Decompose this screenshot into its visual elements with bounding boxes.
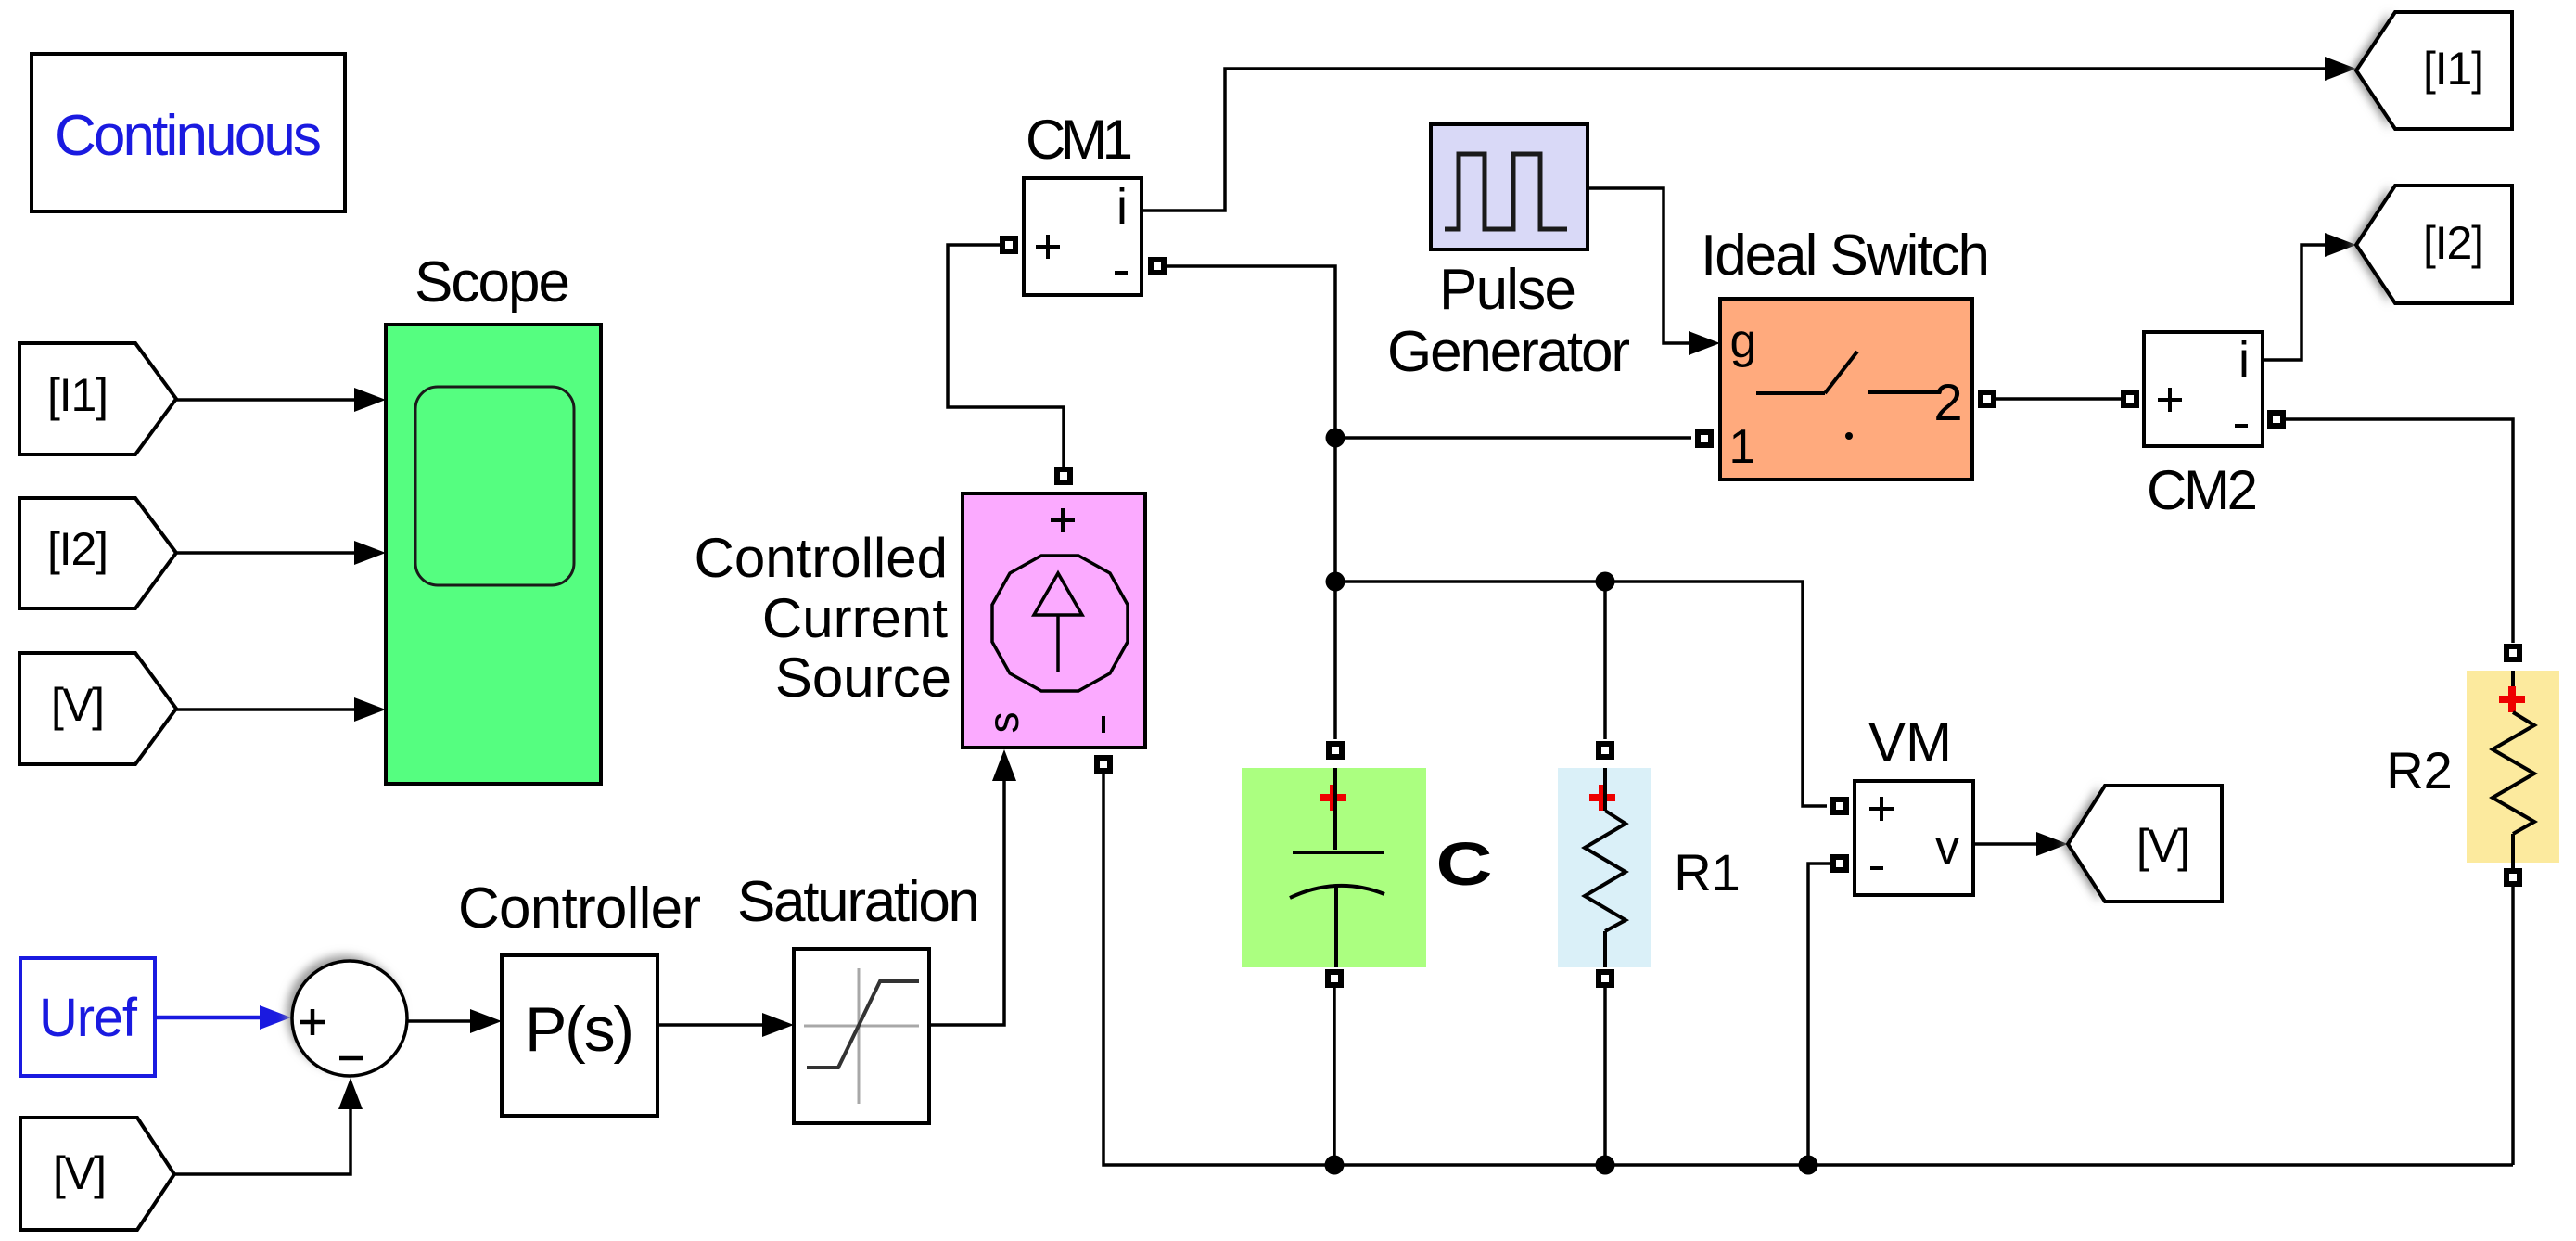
resistor R2 block xyxy=(2467,671,2559,869)
wire [V] feedback to sum - input xyxy=(174,1109,351,1174)
svg-text:1: 1 xyxy=(1729,420,1756,474)
arrowhead into goto [I2] xyxy=(2325,233,2356,257)
Saturation block xyxy=(794,949,929,1123)
port switch 1 xyxy=(1698,432,1711,445)
svg-text:[V]: [V] xyxy=(2136,820,2190,872)
port C top xyxy=(1329,744,1342,757)
port CM1 - xyxy=(1151,260,1164,273)
arrowhead into Controller xyxy=(470,1009,502,1033)
arrowhead into Scope input 2 xyxy=(354,541,386,565)
svg-text:Saturation: Saturation xyxy=(737,870,980,934)
svg-text:P(s): P(s) xyxy=(525,994,634,1065)
svg-text:[I2]: [I2] xyxy=(2423,217,2484,269)
wire Saturation to Controlled Current Source s-input xyxy=(929,781,1004,1025)
junction node at (1440,627) xyxy=(1326,572,1345,592)
wire Controller to Saturation xyxy=(657,1023,777,1027)
svg-text:g: g xyxy=(1730,314,1757,368)
svg-text:Ideal Switch: Ideal Switch xyxy=(1701,224,1990,288)
from tag [I1] xyxy=(19,343,176,454)
wire switch 2 to CM2 + xyxy=(1994,397,2125,401)
wire [I2] to Scope xyxy=(176,551,369,555)
svg-text:[I1]: [I1] xyxy=(47,369,108,421)
svg-text:2: 2 xyxy=(1933,373,1962,431)
svg-text:VM: VM xyxy=(1868,711,1952,774)
svg-text:Scope: Scope xyxy=(414,250,570,314)
svg-text:Pulse: Pulse xyxy=(1439,258,1576,322)
capacitor C block xyxy=(1242,768,1426,967)
port VM - xyxy=(1833,857,1846,870)
goto tag [I1] shadow xyxy=(2351,12,2390,129)
arrowhead into Scope input 3 xyxy=(354,697,386,722)
voltage measurement VM xyxy=(1855,781,1973,895)
svg-text:[I2]: [I2] xyxy=(47,523,108,575)
port switch 2 xyxy=(1981,392,1994,405)
goto tag [I2] xyxy=(2356,186,2512,303)
resistor R1 block xyxy=(1558,768,1651,967)
label Pulse Generator xyxy=(1387,258,1630,384)
Uref constant block xyxy=(20,958,155,1076)
svg-text:[I1]: [I1] xyxy=(2423,43,2484,95)
port R1 top xyxy=(1599,744,1612,757)
wire CM1 + to CCS + terminal xyxy=(948,245,1064,468)
goto tag [V] shadow xyxy=(2062,786,2099,902)
Controller block P(s) xyxy=(502,955,657,1116)
wire CM1 i output to tag [I1] xyxy=(1141,69,2339,211)
svg-text:CM2: CM2 xyxy=(2147,459,2258,521)
wire VM v to goto [V] xyxy=(1973,842,2051,846)
scope block xyxy=(386,325,601,784)
wire CCS - to ground bus xyxy=(1103,771,2513,1165)
svg-text:[V]: [V] xyxy=(51,679,105,731)
port CCS - (bottom right) xyxy=(1097,758,1110,771)
svg-text:Current: Current xyxy=(762,587,948,649)
current measurement CM1 xyxy=(1024,178,1141,295)
arrowhead into sum + input (blue) xyxy=(260,1005,291,1030)
port CCS + (top) xyxy=(1057,469,1070,482)
port R1 bottom xyxy=(1599,972,1612,985)
controlled current source block U1 xyxy=(963,493,1145,748)
goto tag [V] xyxy=(2068,786,2222,902)
arrowhead into g input xyxy=(1689,331,1720,355)
junction node at (1440,472) xyxy=(1326,429,1345,448)
svg-text:Controlled: Controlled xyxy=(695,527,949,589)
svg-text:i: i xyxy=(2238,332,2250,388)
svg-text:s: s xyxy=(979,712,1027,734)
svg-text:R2: R2 xyxy=(2386,741,2453,800)
from tag [V] (scope input) xyxy=(19,653,176,764)
wire sum to Controller xyxy=(407,1019,485,1023)
junction node at (1731,1256) xyxy=(1596,1156,1615,1175)
sum junction shadow xyxy=(287,955,402,1070)
wire R1 bottom to ground bus xyxy=(1603,985,1607,1165)
sum junction circle xyxy=(292,961,407,1076)
arrowhead into Scope input 1 xyxy=(354,388,386,412)
pulse generator block xyxy=(1431,124,1588,249)
wire R2 bottom to ground bus xyxy=(2511,884,2515,1165)
goto tag [I2] shadow xyxy=(2351,186,2390,303)
junction node at (1950,1256) xyxy=(1799,1156,1818,1175)
port R2 bottom xyxy=(2506,871,2519,884)
svg-text:Controller: Controller xyxy=(458,876,701,940)
junction node at (1439,1256) xyxy=(1325,1156,1345,1175)
wire Uref to sum (blue) xyxy=(155,1016,261,1020)
wire CM2 i to goto [I2] xyxy=(2263,245,2339,360)
port CM2 + xyxy=(2123,392,2136,405)
labels Controlled Current Source xyxy=(695,527,952,709)
svg-text:Uref: Uref xyxy=(39,988,138,1048)
svg-text:C: C xyxy=(1435,830,1492,899)
arrowhead into goto [V] xyxy=(2036,832,2068,856)
svg-text:CM1: CM1 xyxy=(1026,109,1133,171)
svg-text:i: i xyxy=(1116,179,1128,235)
svg-text:Source: Source xyxy=(775,646,951,709)
wire C bottom to ground bus xyxy=(1333,985,1336,1165)
junction node at (1731,627) xyxy=(1596,572,1615,592)
port VM + xyxy=(1833,800,1846,812)
arrowhead into goto [I1] xyxy=(2325,57,2356,81)
port R2 top xyxy=(2506,646,2519,659)
wire [I1] to Scope xyxy=(176,398,369,402)
goto tag [I1] xyxy=(2356,12,2512,129)
wire CM2 - to R2 top xyxy=(2283,419,2513,643)
from tag [I2] xyxy=(19,498,176,608)
arrowhead into Saturation xyxy=(762,1013,794,1037)
from tag [V] (feedback) xyxy=(20,1118,174,1230)
svg-text:[V]: [V] xyxy=(53,1147,107,1199)
wire [V] to Scope xyxy=(176,708,369,711)
svg-text:v: v xyxy=(1935,821,1959,875)
wire VM - to ground bus xyxy=(1808,864,1833,1165)
wire node down to R1 top xyxy=(1603,582,1607,739)
ideal switch block S1 xyxy=(1720,299,1972,480)
arrowhead into CCS s-input xyxy=(992,749,1016,781)
wire node to VM + (horizontal bus y=627) xyxy=(1335,582,1827,806)
powergui block "Continuous" xyxy=(32,54,345,211)
port C bottom xyxy=(1328,972,1341,985)
wire CM1 - down to capacitor C xyxy=(1167,266,1335,739)
svg-text:R1: R1 xyxy=(1674,843,1741,902)
current measurement CM2 xyxy=(2144,332,2263,446)
port CM1 + xyxy=(1002,238,1015,251)
wire node to Ideal Switch terminal 1 xyxy=(1335,436,1691,440)
port CM2 - xyxy=(2270,413,2283,426)
svg-text:Generator: Generator xyxy=(1387,320,1630,384)
arrowhead into sum - input xyxy=(338,1078,363,1109)
svg-text:Continuous: Continuous xyxy=(55,104,322,168)
wire Pulse Generator to Ideal Switch g xyxy=(1588,188,1691,343)
